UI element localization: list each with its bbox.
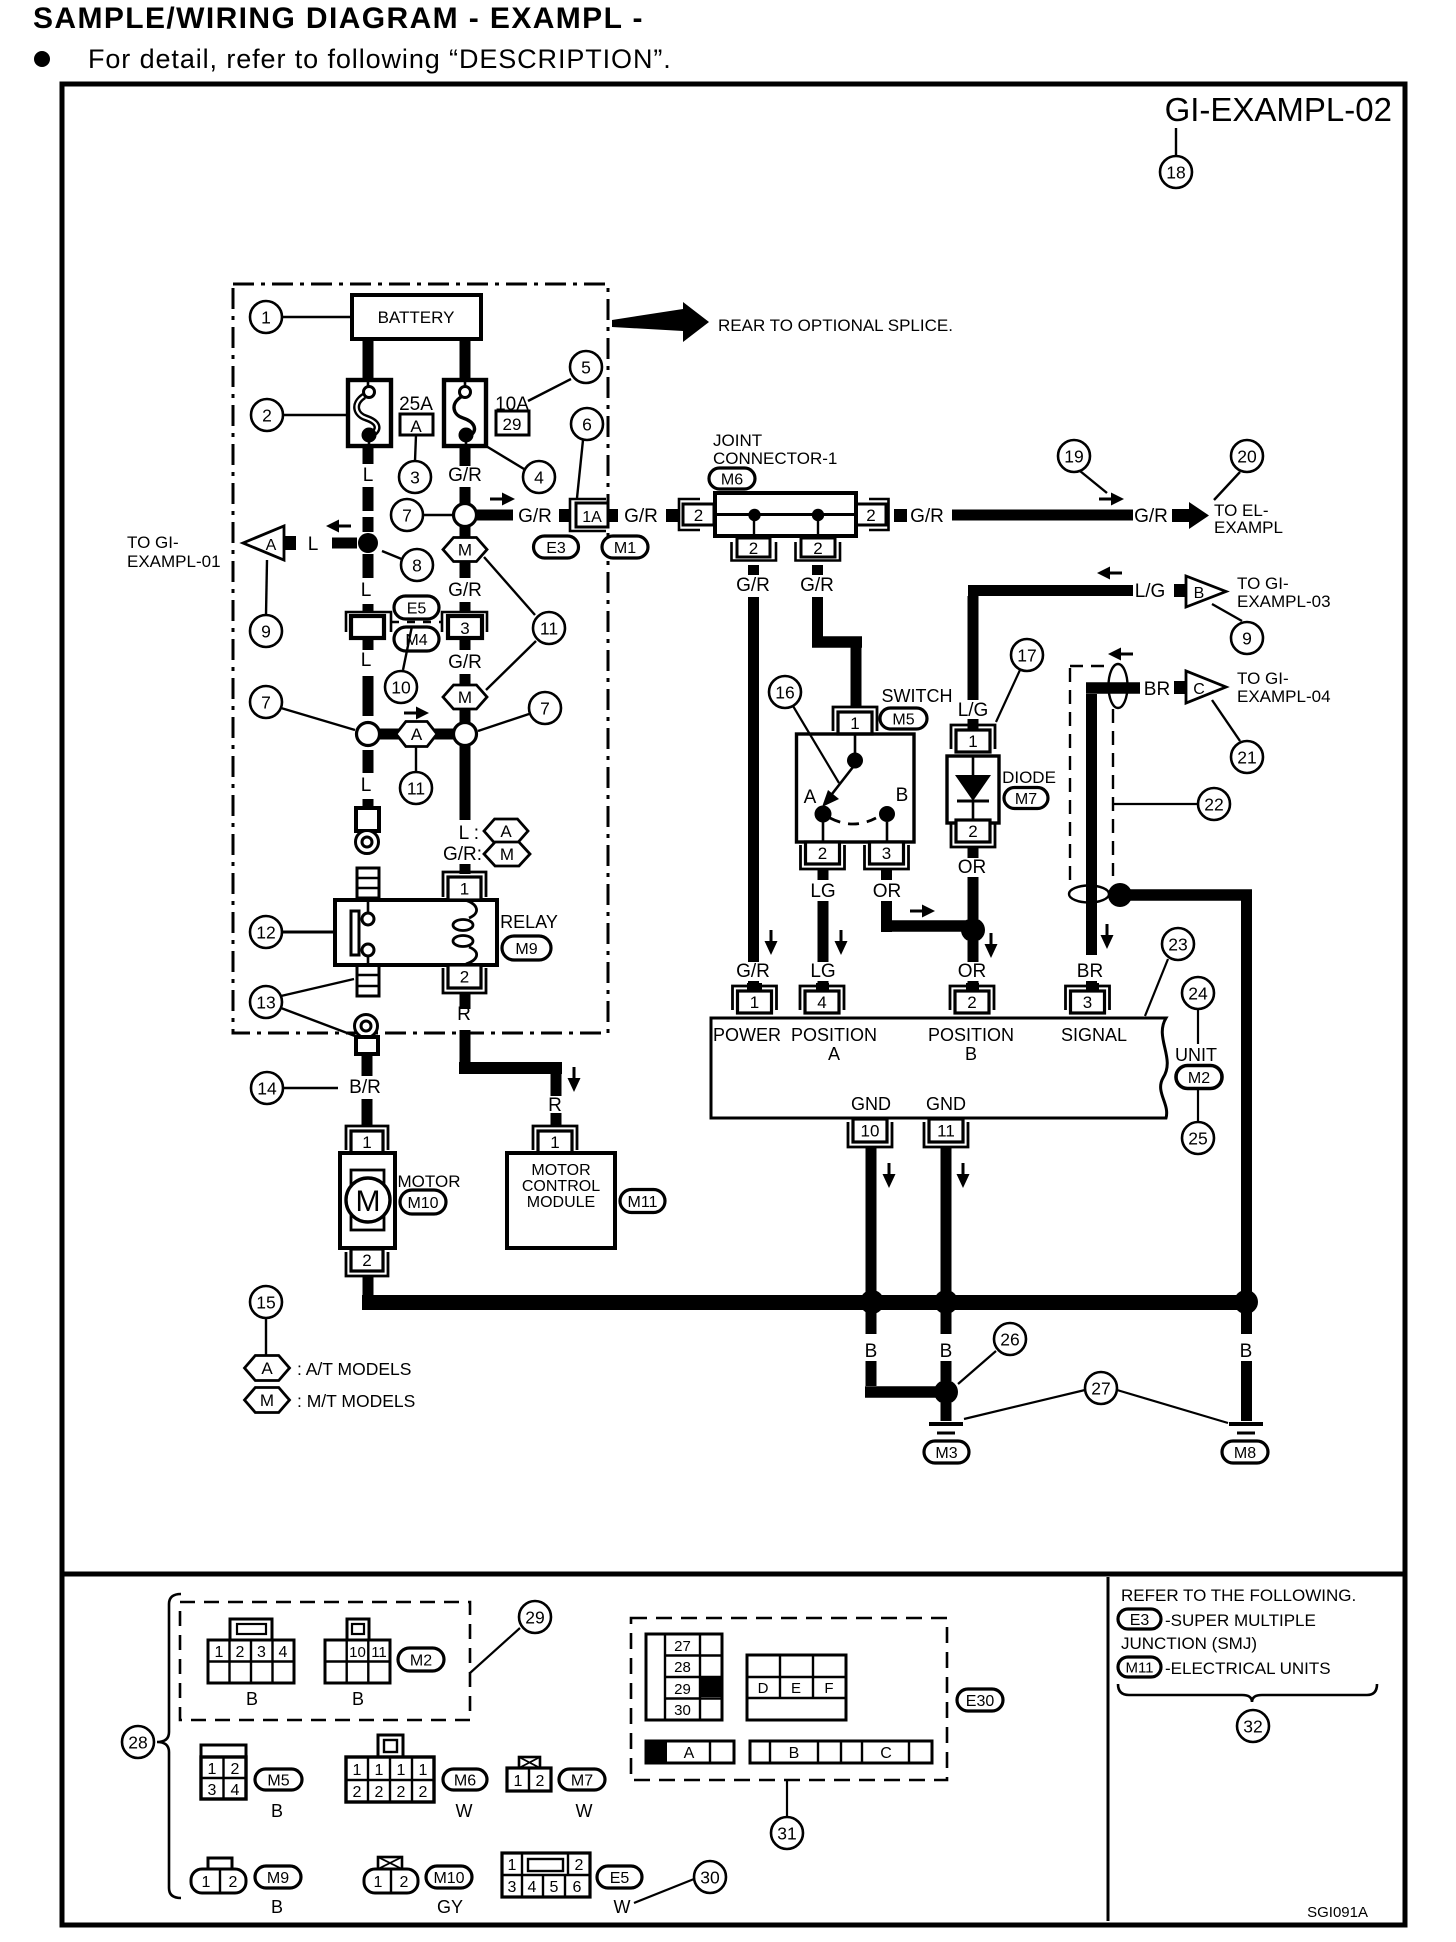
callout 15: [250, 1286, 282, 1355]
callout 7 right: [478, 692, 561, 731]
joint connector ref M6: [709, 468, 755, 489]
arrow right small near G/R: [1099, 493, 1124, 506]
svg-text:2: 2: [749, 539, 758, 558]
svg-text:B: B: [352, 1689, 364, 1709]
svg-text:B: B: [865, 1341, 878, 1362]
label L below fusible link: [363, 446, 374, 486]
svg-text:9: 9: [261, 621, 271, 641]
svg-text:SWITCH: SWITCH: [882, 686, 953, 706]
svg-text:R: R: [548, 1095, 562, 1116]
inline connector on L wire (E5-M4): [346, 612, 391, 638]
svg-text:6: 6: [573, 1879, 582, 1896]
wire B pin10 below bus: [865, 1309, 952, 1398]
callout 22: [1113, 788, 1230, 820]
motor control module body: [507, 1153, 615, 1248]
svg-text:W: W: [614, 1897, 631, 1917]
module ref M11: [620, 1190, 665, 1213]
bus junction dot left: [860, 1290, 884, 1314]
svg-text:4: 4: [528, 1879, 537, 1896]
svg-text:7: 7: [540, 698, 550, 718]
label RELAY: [500, 912, 558, 932]
fuse block connector above relay: [357, 868, 379, 898]
svg-text:3: 3: [460, 619, 469, 638]
svg-text:E3: E3: [1130, 1612, 1150, 1629]
svg-text:MOTOR: MOTOR: [531, 1162, 590, 1179]
arrow right above G/R wire: [490, 493, 515, 506]
label TO GI-EXAMPL-04: [1237, 669, 1331, 706]
svg-text:2: 2: [419, 1784, 428, 1801]
ref M2 bottom: [398, 1648, 444, 1671]
svg-text:11: 11: [371, 1644, 387, 1661]
svg-text:2: 2: [231, 1761, 240, 1778]
brace for group 28: [157, 1594, 181, 1898]
svg-text:For detail, refer to following: For detail, refer to following “DESCRIPT…: [88, 44, 672, 74]
callout 16: [769, 676, 839, 783]
joint connector M6 body: [715, 493, 856, 536]
lower M hexagon on G/R wire: [443, 685, 487, 709]
splice on L wire (open): [357, 723, 380, 746]
relay coil: [453, 900, 477, 964]
svg-text:3: 3: [410, 467, 420, 487]
svg-text:10: 10: [861, 1122, 880, 1141]
wire B from unit pin 10: [866, 1147, 877, 1296]
svg-text:OR: OR: [958, 857, 987, 878]
svg-text:G/R: G/R: [624, 506, 658, 527]
wire G/R long to EL-EXAMPL: [952, 506, 1168, 527]
svg-text:SAMPLE/WIRING DIAGRAM - EXAMPL: SAMPLE/WIRING DIAGRAM - EXAMPL -: [33, 2, 644, 35]
svg-text:REFER TO THE FOLLOWING.: REFER TO THE FOLLOWING.: [1121, 1586, 1356, 1605]
svg-text:7: 7: [261, 692, 271, 712]
arrow left above BR: [1108, 648, 1133, 661]
svg-text:A: A: [411, 725, 423, 744]
callout 7 top: [391, 499, 453, 531]
connector triangle C to GI-EXAMPL-04: [1174, 671, 1226, 703]
svg-text:SGI091A: SGI091A: [1307, 1904, 1368, 1921]
switch dashed throw arc: [830, 818, 876, 824]
joint connector left terminal 2: [679, 499, 714, 530]
label MOTOR: [398, 1172, 461, 1191]
svg-text:GND: GND: [851, 1094, 891, 1114]
svg-text:1: 1: [397, 1762, 406, 1779]
unit pin 1 POWER: [733, 983, 777, 1013]
wire G/R below fuse: [460, 487, 471, 504]
svg-text:L: L: [361, 650, 372, 671]
ref M6 bottom: [443, 1769, 487, 1821]
joint connector internal junction left: [748, 509, 760, 536]
switch ref M5: [880, 708, 927, 729]
svg-text:M6: M6: [721, 471, 743, 488]
callout 21: [1212, 700, 1263, 773]
callout 28: [122, 1726, 154, 1758]
motor control module label: [522, 1162, 600, 1211]
svg-text:11: 11: [540, 618, 558, 638]
svg-text:31: 31: [777, 1823, 796, 1843]
switch pin 3: [865, 842, 909, 869]
svg-text:E: E: [791, 1680, 801, 1697]
svg-text:M5: M5: [892, 711, 914, 728]
svg-text:L: L: [361, 580, 372, 601]
wire B/R to motor: [349, 1054, 381, 1126]
svg-text:A: A: [261, 1359, 273, 1378]
arrow down beside BR wire: [1101, 924, 1114, 949]
diode M7 body: [947, 756, 999, 823]
svg-text:JUNCTION (SMJ): JUNCTION (SMJ): [1121, 1634, 1257, 1653]
svg-text:GY: GY: [437, 1897, 463, 1917]
svg-text:2: 2: [866, 506, 875, 525]
ground bus wire: [362, 1295, 1253, 1310]
svg-text:BR: BR: [1077, 961, 1103, 982]
callout 19: [1058, 440, 1107, 493]
svg-text:13: 13: [256, 992, 275, 1012]
callout 4: [486, 446, 555, 493]
tapered arrow REAR TO OPTIONAL SPLICE: [612, 302, 953, 342]
wire L dashed segment 4: [361, 750, 374, 808]
svg-text:7: 7: [402, 505, 412, 525]
callout 23: [1145, 928, 1194, 1016]
svg-text:9: 9: [1242, 628, 1252, 648]
callout 32: [1237, 1710, 1269, 1742]
dashed E30 box: [631, 1618, 947, 1780]
svg-text:5: 5: [550, 1879, 559, 1896]
callout 3: [399, 435, 431, 493]
joint connector right terminal 2: [856, 499, 889, 530]
ref E30: [957, 1689, 1003, 1711]
joint connector bottom terminal 2 left: [732, 538, 777, 561]
wire OR to unit position B: [958, 941, 987, 991]
svg-text:LG: LG: [810, 961, 835, 982]
svg-text:M8: M8: [1234, 1445, 1256, 1462]
svg-text:2: 2: [353, 1784, 362, 1801]
svg-text:B/R: B/R: [349, 1077, 381, 1098]
callout 30: [634, 1861, 726, 1903]
ref M10 bottom: [426, 1866, 472, 1917]
svg-text:G/R: G/R: [800, 575, 834, 596]
arrow left on L stub: [326, 520, 351, 533]
svg-text:10: 10: [349, 1644, 366, 1661]
svg-text:23: 23: [1168, 934, 1187, 954]
dashed group 29 box: [180, 1602, 470, 1720]
svg-text:B: B: [271, 1897, 283, 1917]
junction dot OR: [961, 918, 985, 942]
svg-text:M11: M11: [1125, 1659, 1153, 1676]
wire G/R below connector 3: [448, 638, 482, 688]
svg-text:E5: E5: [407, 600, 427, 617]
wire G/R to inline connector 3: [448, 561, 482, 612]
svg-text:17: 17: [1017, 645, 1036, 665]
svg-text:2: 2: [460, 968, 469, 987]
svg-text:POSITION: POSITION: [928, 1025, 1014, 1045]
svg-text:MOTOR: MOTOR: [398, 1172, 461, 1191]
optional splice dot: [1108, 883, 1132, 907]
svg-text:M: M: [458, 541, 472, 560]
svg-text:LG: LG: [810, 881, 835, 902]
battery B1: [352, 295, 481, 339]
optional splice dashed enclosure: [1069, 664, 1128, 903]
arrow down pin 11 wire: [957, 1163, 970, 1188]
svg-text:REAR TO OPTIONAL SPLICE.: REAR TO OPTIONAL SPLICE.: [718, 316, 953, 335]
label G/R below fuse: [448, 446, 482, 486]
svg-text:1: 1: [215, 1644, 224, 1661]
svg-text:4: 4: [279, 1644, 288, 1661]
svg-text:M5: M5: [267, 1772, 289, 1789]
bus junction dot right: [1234, 1290, 1258, 1314]
ref M5 bottom: [255, 1769, 302, 1821]
mating dashes between E5 connectors: [391, 621, 441, 624]
svg-text:EXAMPL: EXAMPL: [1214, 518, 1283, 537]
bullet: [34, 51, 50, 67]
unit pin 11 GND: [924, 1119, 968, 1147]
label 10A with fuse box 29: [495, 394, 529, 435]
callout 17: [996, 639, 1043, 722]
svg-text:POWER: POWER: [713, 1025, 781, 1045]
legend hexagon M: [245, 1388, 416, 1413]
svg-text:A: A: [410, 417, 422, 436]
svg-text:2: 2: [967, 993, 976, 1012]
wire L stub to triangle A: [308, 534, 357, 555]
page title: [33, 2, 644, 35]
svg-text:C: C: [880, 1745, 892, 1762]
label SWITCH: [882, 686, 953, 706]
svg-text:1: 1: [750, 993, 759, 1012]
unit pin 10 GND: [848, 1119, 892, 1147]
svg-text:24: 24: [1188, 983, 1208, 1003]
svg-text:BR: BR: [1144, 679, 1170, 700]
wire B from unit pin 11: [941, 1147, 952, 1296]
wire R relay to motor control module: [459, 1001, 562, 1126]
svg-text:OR: OR: [958, 961, 987, 982]
svg-text:4: 4: [534, 467, 544, 487]
ref E3 note: [1118, 1609, 1316, 1630]
svg-text:EXAMPL-04: EXAMPL-04: [1237, 687, 1331, 706]
connector view M6: [346, 1735, 434, 1802]
relay pin 2: [443, 965, 486, 1001]
svg-text:TO GI-: TO GI-: [1237, 669, 1289, 688]
relay M9 body: [335, 900, 497, 965]
svg-text:G/R: G/R: [518, 506, 552, 527]
connector triangle A to GI-EXAMPL-01: [243, 526, 296, 560]
svg-text:M10: M10: [433, 1870, 464, 1887]
svg-text:M11: M11: [628, 1194, 658, 1211]
svg-text:C: C: [1193, 681, 1205, 698]
brace under references: [1118, 1684, 1377, 1702]
svg-text:M7: M7: [571, 1772, 593, 1789]
svg-text:11: 11: [407, 778, 425, 798]
svg-text:SIGNAL: SIGNAL: [1061, 1025, 1127, 1045]
callout 2: [251, 399, 348, 431]
switch common contact: [847, 734, 863, 769]
ref M7 bottom: [559, 1769, 605, 1821]
svg-text:1: 1: [968, 732, 977, 751]
svg-text:A: A: [684, 1745, 695, 1762]
callout 13: [250, 979, 355, 1036]
svg-text:27: 27: [674, 1638, 691, 1655]
svg-text:2: 2: [694, 506, 703, 525]
battery dash-dot enclosure: [233, 284, 608, 1033]
arrow down pin 10 wire: [883, 1163, 896, 1188]
svg-text:G/R: G/R: [736, 575, 770, 596]
callout 5: [528, 351, 602, 401]
diode pin 2: [951, 820, 995, 847]
svg-text:11: 11: [937, 1122, 955, 1141]
wire L dashed segment 2: [361, 554, 374, 612]
svg-text:M7: M7: [1015, 791, 1037, 808]
svg-text:-SUPER MULTIPLE: -SUPER MULTIPLE: [1165, 1611, 1316, 1630]
svg-text:2: 2: [818, 844, 827, 863]
svg-text:2: 2: [536, 1773, 545, 1790]
svg-text:27: 27: [1091, 1378, 1110, 1398]
svg-text:B: B: [246, 1689, 258, 1709]
switch pin 2: [801, 842, 845, 869]
svg-text:2: 2: [813, 539, 822, 558]
svg-text:W: W: [576, 1801, 593, 1821]
bolt symbol below relay: [355, 1015, 378, 1038]
svg-text:G/R: G/R: [736, 961, 770, 982]
svg-text:F: F: [824, 1680, 833, 1697]
svg-text:W: W: [456, 1801, 473, 1821]
svg-text:E3: E3: [546, 540, 566, 557]
svg-text:3: 3: [257, 1644, 266, 1661]
connector view M10: [364, 1857, 418, 1893]
svg-text:M: M: [500, 845, 514, 864]
svg-text:2: 2: [397, 1784, 406, 1801]
svg-text:M6: M6: [454, 1772, 476, 1789]
callout 31: [771, 1780, 803, 1849]
splice open on G/R wire top: [454, 504, 477, 527]
arrow right above OR wire: [910, 905, 935, 918]
svg-text:2: 2: [375, 1784, 384, 1801]
connector view M2-b: [325, 1619, 390, 1709]
svg-text:B: B: [940, 1341, 953, 1362]
callout 7 left: [250, 686, 355, 730]
wire BR corner: [1077, 682, 1140, 991]
connector triangle B to GI-EXAMPL-03: [1174, 576, 1226, 607]
svg-text:21: 21: [1237, 747, 1256, 767]
wire L dashed segment 3: [361, 638, 374, 716]
svg-text:L: L: [361, 775, 372, 796]
svg-text:B: B: [271, 1801, 283, 1821]
svg-text:G/R: G/R: [910, 506, 944, 527]
svg-text:1: 1: [362, 1133, 371, 1152]
unit pin 4 POSITION A: [800, 983, 844, 1013]
wire B to ground M3: [941, 1403, 952, 1421]
diode pin 1: [951, 725, 995, 752]
wire battery left to fusible link: [363, 339, 374, 381]
svg-text:G/R:: G/R:: [443, 844, 482, 865]
arrow down beside R wire: [568, 1067, 581, 1092]
connector view M5: [201, 1745, 246, 1799]
svg-text:1A: 1A: [582, 509, 602, 526]
label TO EL-EXAMPL: [1214, 501, 1283, 537]
svg-text:B: B: [1240, 1341, 1253, 1362]
svg-text:A: A: [828, 1044, 840, 1064]
svg-text:M3: M3: [935, 1445, 957, 1462]
svg-text:2: 2: [229, 1874, 238, 1891]
wire motor to ground bus: [363, 1276, 374, 1296]
svg-text:28: 28: [128, 1732, 147, 1752]
switch contact A: [804, 787, 832, 842]
svg-text:L/G: L/G: [958, 700, 989, 721]
wire L/G to diode: [958, 596, 989, 730]
svg-text:CONNECTOR-1: CONNECTOR-1: [713, 449, 837, 468]
svg-text:TO GI-: TO GI-: [1237, 574, 1289, 593]
svg-text:EXAMPL-03: EXAMPL-03: [1237, 592, 1331, 611]
svg-text:A: A: [500, 822, 512, 841]
label BR: [1144, 679, 1170, 700]
callout 9 left: [250, 560, 282, 647]
splice 8 on L wire: [358, 533, 378, 553]
ref M9 bottom: [255, 1866, 301, 1917]
svg-text:G/R: G/R: [448, 465, 482, 486]
svg-text:E30: E30: [966, 1693, 995, 1710]
svg-text:JOINT: JOINT: [713, 431, 762, 450]
label UNIT: [1175, 1045, 1217, 1065]
switch M5 body: [797, 734, 915, 842]
svg-text:29: 29: [674, 1681, 691, 1698]
splice dot 26: [934, 1380, 958, 1404]
svg-text:3: 3: [1083, 993, 1092, 1012]
svg-text:4: 4: [817, 993, 826, 1012]
svg-text:30: 30: [700, 1867, 720, 1887]
fusible link: [348, 380, 391, 446]
svg-text:5: 5: [581, 357, 591, 377]
svg-text:M2: M2: [410, 1652, 432, 1669]
svg-text:RELAY: RELAY: [500, 912, 558, 932]
svg-text:22: 22: [1204, 794, 1223, 814]
svg-text:M1: M1: [614, 540, 636, 557]
switch contact B: [879, 785, 908, 842]
label TO GI-EXAMPL-03: [1237, 574, 1331, 611]
svg-text:M: M: [260, 1391, 274, 1410]
legend hexagon A: [245, 1356, 412, 1381]
unit GND labels: [851, 1094, 966, 1114]
svg-text:1: 1: [460, 880, 469, 899]
svg-text:32: 32: [1243, 1716, 1262, 1736]
junction SMJ text: [1121, 1634, 1257, 1653]
joint connector internal junction right: [812, 509, 824, 536]
wire LG below switch: [810, 869, 835, 991]
svg-text:2: 2: [575, 1857, 584, 1874]
svg-text:28: 28: [674, 1659, 691, 1676]
svg-text:1: 1: [374, 1874, 383, 1891]
callout 27: [964, 1372, 1228, 1423]
svg-text:1: 1: [375, 1762, 384, 1779]
svg-text:2: 2: [968, 822, 977, 841]
wire color legend G/R: M: [443, 842, 530, 866]
motor ref M10: [400, 1190, 446, 1214]
relay ref M9: [502, 936, 551, 960]
svg-text:POSITION: POSITION: [791, 1025, 877, 1045]
block arrow to EL-EXAMPL: [1172, 502, 1209, 529]
hexagon A option between splices: [379, 722, 454, 747]
ground symbol M8: [1222, 1424, 1268, 1463]
svg-text:EXAMPL-01: EXAMPL-01: [127, 552, 221, 571]
wire G/R from 1A to joint connector: [609, 506, 679, 527]
motor M10 body: [340, 1153, 395, 1248]
svg-text:25A: 25A: [399, 394, 433, 415]
svg-text:14: 14: [257, 1078, 277, 1098]
svg-text:M9: M9: [515, 941, 537, 958]
connector ref E5: [394, 596, 439, 619]
refer to following text: [1121, 1586, 1356, 1605]
svg-text:A: A: [266, 537, 277, 554]
wire B from splice to right edge: [1130, 889, 1252, 1296]
svg-text:1: 1: [353, 1762, 362, 1779]
sheet code GI-EXAMPL-02: [1165, 91, 1392, 128]
svg-text:2: 2: [262, 405, 272, 425]
motor pin 2: [346, 1249, 388, 1276]
svg-text:12: 12: [256, 922, 275, 942]
svg-text:OR: OR: [873, 881, 902, 902]
